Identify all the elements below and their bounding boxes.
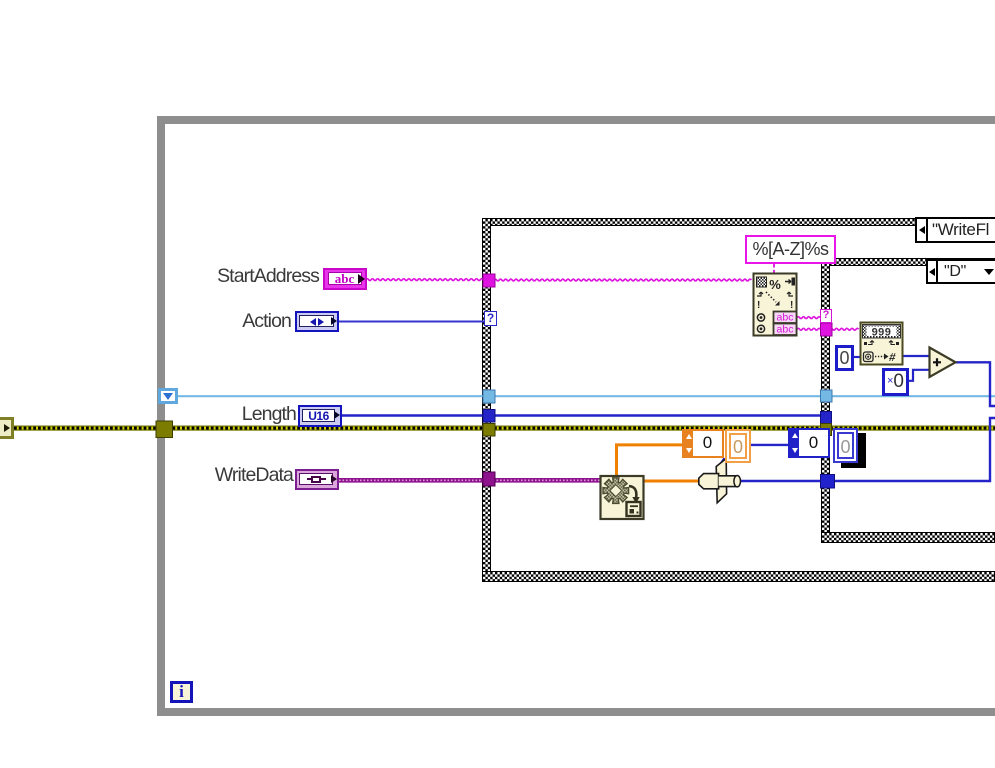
label Action <box>200 311 291 331</box>
wire blue link <box>750 444 789 446</box>
Length U16 control <box>298 405 342 427</box>
error in control (clipped at left edge) <box>0 417 14 439</box>
outer case selector terminal <box>484 311 497 326</box>
wire blue diagonal <box>720 458 725 466</box>
iteration terminal <box>170 681 193 703</box>
outer case bottom border <box>482 571 995 582</box>
wire add out <box>955 362 995 406</box>
tunnel lightblue outer <box>483 390 495 403</box>
tunnel lightblue inner <box>821 390 833 402</box>
orange numeric indicator <box>725 429 751 463</box>
numeric constant x0 hex <box>882 368 909 396</box>
while loop left border <box>157 116 165 716</box>
blue numeric indicator <box>833 428 858 463</box>
flatten to string icon <box>601 476 644 519</box>
tunnel olive inner <box>821 424 832 436</box>
wire scan out 1 <box>797 317 820 319</box>
inner case top border <box>821 258 995 266</box>
wire light blue <box>176 395 995 397</box>
numeric constant 0 (blue) <box>835 345 854 371</box>
windmill (type cast) icon <box>699 459 741 503</box>
label Length <box>200 404 296 424</box>
wire d2n to add <box>902 355 930 357</box>
Action enum control <box>295 311 339 332</box>
tunnel blue inner low <box>821 475 835 489</box>
wire error line <box>14 426 995 431</box>
case selector label outer "WriteFl <box>915 217 995 243</box>
add function <box>930 348 956 378</box>
wire U16 Length <box>342 414 830 416</box>
wire format-string label stub <box>773 264 775 274</box>
StartAddress string control <box>323 268 367 290</box>
wire orange horizontal <box>643 480 700 483</box>
tunnel olive loop <box>156 421 173 438</box>
wire scan out 2 <box>797 328 820 330</box>
format string constant <box>745 235 836 264</box>
blue numeric control pair <box>788 428 830 458</box>
wire const to d2n <box>853 356 861 358</box>
wire StartAddress string <box>366 279 483 281</box>
svg-text:!: ! <box>757 300 760 311</box>
svg-text:abc: abc <box>777 324 794 336</box>
wire WriteData cluster <box>339 478 601 483</box>
label StartAddress <box>200 266 319 286</box>
wire orange riser <box>617 445 684 477</box>
tunnel blue outer <box>483 410 495 423</box>
inner case selector terminal <box>820 309 832 323</box>
wire windmill out <box>740 418 995 481</box>
while loop top border <box>157 116 995 124</box>
decimal string to number icon <box>861 323 903 365</box>
tunnel pink outer <box>483 274 495 287</box>
blue indicator shadow <box>841 433 866 468</box>
outer case left border <box>482 218 491 582</box>
case selector label inner "D" <box>926 259 995 284</box>
tunnel olive outer <box>483 424 495 437</box>
inner case left border <box>821 258 830 543</box>
wire Action enum <box>339 321 486 323</box>
orange numeric control pair <box>682 429 724 458</box>
WriteData cluster control <box>295 469 339 490</box>
svg-text:%: % <box>769 277 781 292</box>
tunnel blue inner <box>821 412 832 425</box>
svg-text:999: 999 <box>872 326 892 338</box>
svg-text:abc: abc <box>777 312 794 324</box>
while loop bottom border <box>157 708 995 716</box>
shift register left <box>158 388 178 404</box>
inner case bottom border <box>821 532 995 543</box>
scan from string icon <box>754 274 797 336</box>
tunnel pink inner <box>821 323 833 336</box>
label WriteData <box>200 465 293 485</box>
outer case top border <box>482 218 995 226</box>
wire x0 to add <box>908 370 930 381</box>
svg-text:!: ! <box>790 300 793 311</box>
tunnel purple outer <box>483 472 495 486</box>
